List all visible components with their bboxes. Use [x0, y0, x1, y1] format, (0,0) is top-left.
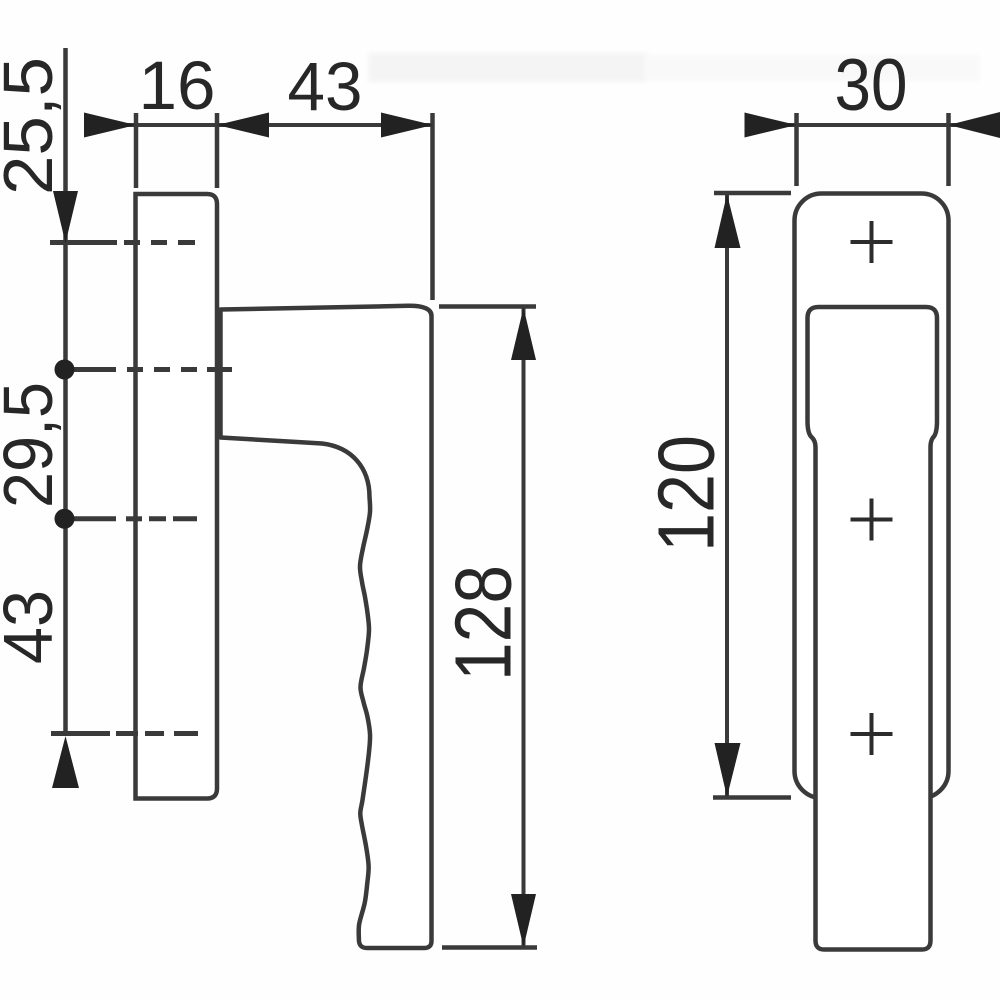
- svg-text:43: 43: [0, 590, 67, 664]
- arrow up to axis4 (below line): [52, 736, 79, 788]
- extension tick at 217: [215, 113, 220, 188]
- ext line right: [946, 113, 951, 186]
- extension tick at 136: [134, 113, 139, 188]
- arrow down to axis1: [53, 191, 78, 243]
- svg-text:120: 120: [642, 435, 731, 552]
- arrow down: [715, 743, 741, 797]
- svg-text:43: 43: [288, 48, 363, 125]
- arrow up: [511, 308, 536, 361]
- top tick: [714, 191, 791, 196]
- arrow left to 948, widening to page edge: [949, 112, 1000, 138]
- arrow down: [511, 894, 536, 947]
- svg-text:29,5: 29,5: [0, 382, 67, 508]
- axis 3: [64, 516, 197, 521]
- svg-text:25,5: 25,5: [0, 57, 67, 195]
- arrow right to 796: [745, 113, 797, 138]
- backplate profile: [136, 194, 218, 799]
- ext line left: [794, 113, 799, 186]
- node dot axis3: [55, 509, 75, 529]
- extension line at 432 down to handle: [430, 113, 435, 300]
- faint watermark band: [368, 53, 648, 82]
- screw cross middle: [851, 499, 893, 541]
- axis 1: [50, 240, 195, 245]
- handle profile silhouette: [221, 306, 432, 948]
- bottom tick: [713, 795, 791, 800]
- screw cross top: [851, 221, 893, 263]
- axis 2 (spindle): [64, 367, 232, 372]
- svg-text:128: 128: [439, 565, 528, 681]
- arrow up: [715, 194, 741, 248]
- screw cross bottom: [851, 713, 893, 755]
- handle front silhouette: [808, 307, 938, 950]
- axis 4: [51, 731, 198, 736]
- top tick: [439, 304, 536, 309]
- svg-text:30: 30: [835, 45, 908, 126]
- arrow right to 433: [381, 113, 433, 138]
- arrow left to 217: [217, 113, 269, 138]
- svg-text:16: 16: [139, 47, 216, 124]
- arrow right to 136: [84, 113, 136, 138]
- node dot spindle: [55, 360, 75, 380]
- bottom tick: [442, 945, 537, 950]
- rosette: [795, 194, 949, 799]
